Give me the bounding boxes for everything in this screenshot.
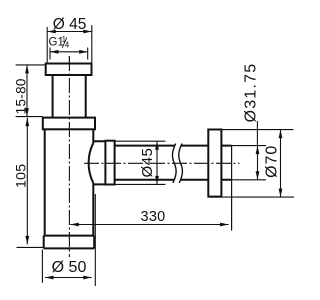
dim Ø50: arrows — [45, 276, 92, 280]
outlet tube to nut — [93, 141, 105, 184]
dim 15-80: extension lines — [16, 65, 46, 117]
tailpiece tube — [53, 75, 86, 118]
body top nut — [43, 118, 95, 130]
dim Ø50: dimension line — [45, 277, 92, 279]
dim 15-80: dimension line — [26, 65, 28, 117]
svg-text:4: 4 — [65, 41, 70, 50]
svg-text:Ø31.75: Ø31.75 — [242, 63, 259, 123]
top nut — [46, 64, 92, 76]
dim Ø45 pipe: dimension line — [156, 141, 158, 184]
dim G1¼: arrows — [50, 50, 88, 54]
dim 105: arrows — [25, 118, 29, 245]
dim Ø45 top: arrows — [47, 30, 92, 34]
pipe horizontal centerline — [84, 162, 240, 164]
dim 330: arrows — [70, 223, 228, 227]
dim Ø70: dimension line — [280, 130, 282, 198]
dim Ø31.75: extension lines — [232, 146, 266, 180]
dim Ø45 pipe: arrows — [155, 141, 159, 184]
dim Ø50: extension lines — [42, 194, 95, 286]
centerline tick above nut — [68, 56, 70, 64]
dim Ø45 pipe: extension lines — [115, 141, 166, 184]
pipe break wavy line right — [179, 144, 183, 183]
body base cup — [44, 236, 94, 249]
dim Ø31.75: dimension line — [257, 146, 259, 180]
pipe bottom edge — [115, 179, 209, 181]
dim Ø45 top: extension lines — [47, 25, 92, 64]
pipe stub behind flange — [221, 146, 231, 180]
svg-text:Ø 45: Ø 45 — [53, 16, 87, 33]
svg-text:Ø70: Ø70 — [264, 145, 281, 178]
dim 105: dimension line — [26, 118, 28, 245]
outlet dome arc — [89, 143, 94, 183]
svg-text:15-80: 15-80 — [13, 78, 28, 114]
dim Ø45 top: dimension line — [47, 31, 92, 33]
svg-text:Ø 50: Ø 50 — [52, 259, 87, 276]
svg-text:330: 330 — [140, 209, 165, 225]
dim 330: dimension line — [70, 224, 228, 226]
pipe end edge + 330 extension line — [231, 146, 233, 231]
dim G1¼: ticks — [50, 48, 88, 60]
dim Ø31.75: arrows — [256, 146, 260, 180]
trap body — [45, 129, 94, 235]
svg-text:105: 105 — [12, 164, 28, 188]
dim 105: bottom extension line — [17, 246, 44, 248]
wall flange — [208, 130, 221, 197]
dim Ø31.75: leader line — [256, 121, 258, 146]
dim Ø70: extension lines — [208, 130, 294, 198]
dim 15-80: arrows — [25, 65, 29, 117]
pipe top edge — [115, 145, 209, 147]
dim Ø70: arrows — [279, 130, 283, 198]
dim G1¼: dimension line — [50, 51, 88, 53]
pipe break wavy line left — [172, 144, 176, 183]
body vertical centerline — [68, 56, 70, 257]
svg-text:Ø45: Ø45 — [139, 148, 156, 178]
outlet nut — [105, 141, 114, 185]
